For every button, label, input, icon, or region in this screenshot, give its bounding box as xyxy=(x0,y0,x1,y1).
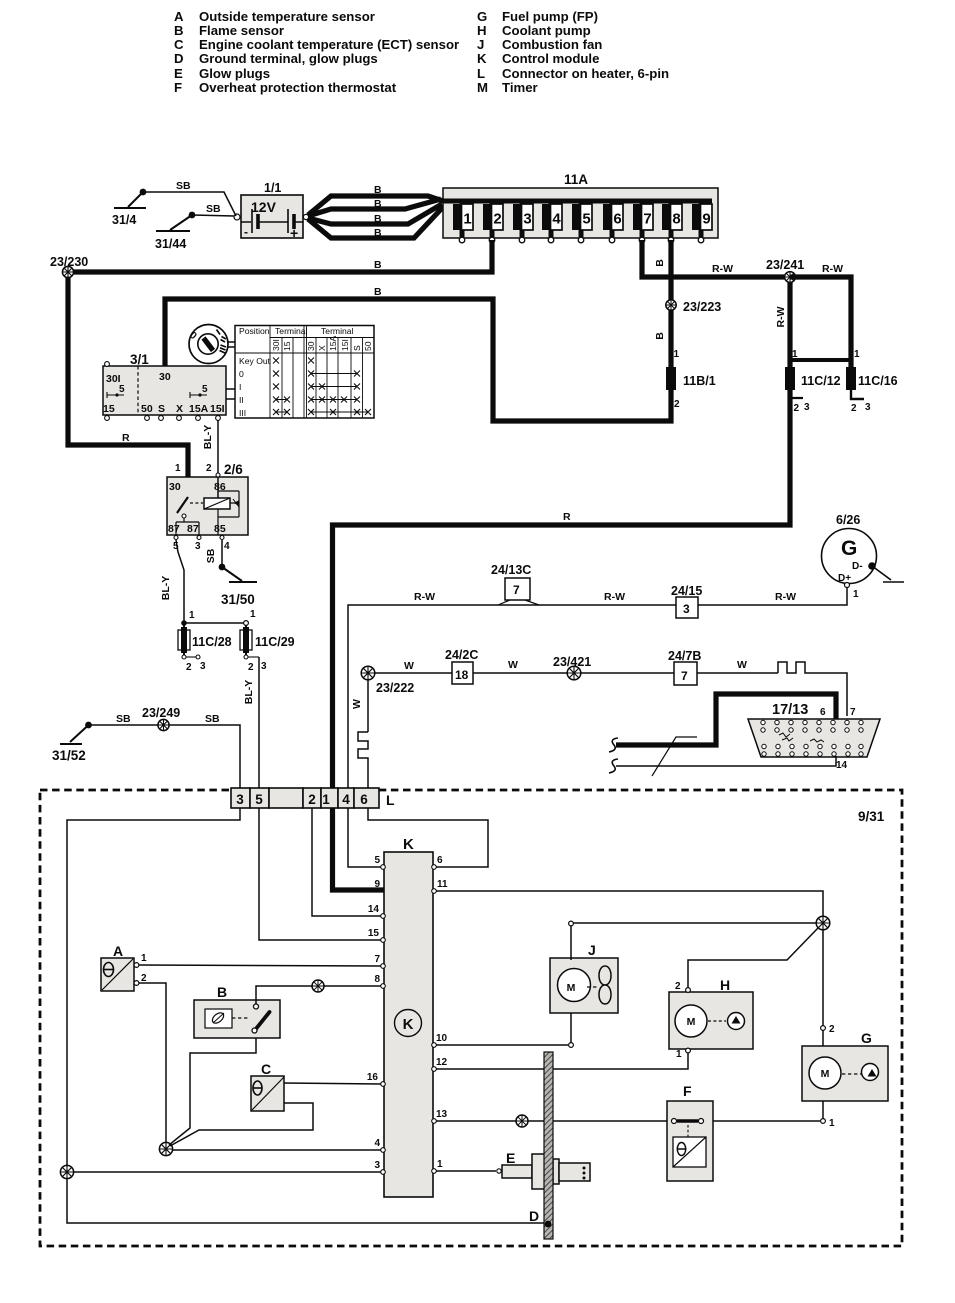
wire from C bottom to sensor ground junction xyxy=(170,1103,313,1146)
svg-text:3: 3 xyxy=(865,402,871,413)
svg-text:23/249: 23/249 xyxy=(142,706,180,720)
pulse symbol on W wire xyxy=(778,662,814,673)
svg-text:1: 1 xyxy=(463,211,471,228)
svg-text:2: 2 xyxy=(675,981,681,992)
ground 31/52 xyxy=(52,722,92,763)
ground at alternator D- xyxy=(868,562,904,582)
wire from L:3 down-left to bottom rail xyxy=(67,808,544,1223)
fuse 11A:6 xyxy=(603,201,623,243)
node junction dot 11C/28 pin1 xyxy=(181,620,187,626)
fuse 11A:3 xyxy=(513,201,533,243)
ground 31/44 xyxy=(155,212,195,251)
svg-text:0: 0 xyxy=(239,369,244,379)
junction 23/223 xyxy=(666,300,721,314)
svg-text:J: J xyxy=(588,942,596,958)
control module K xyxy=(384,836,433,1197)
svg-text:1: 1 xyxy=(792,349,798,360)
svg-text:3/1: 3/1 xyxy=(130,352,149,367)
svg-text:11B/1: 11B/1 xyxy=(683,374,716,388)
svg-text:3: 3 xyxy=(374,1160,380,1171)
svg-text:G: G xyxy=(477,9,487,24)
svg-text:R-W: R-W xyxy=(822,263,843,275)
svg-text:SB: SB xyxy=(176,180,191,192)
svg-text:23/421: 23/421 xyxy=(553,655,591,669)
svg-text:Ground terminal, glow plugs: Ground terminal, glow plugs xyxy=(199,51,378,66)
fuse 11C/28 xyxy=(178,623,232,673)
svg-text:15I: 15I xyxy=(210,403,225,415)
svg-text:5: 5 xyxy=(582,211,590,228)
svg-text:87: 87 xyxy=(187,523,199,535)
svg-text:B: B xyxy=(374,259,382,271)
svg-text:C: C xyxy=(261,1061,271,1077)
svg-text:SB: SB xyxy=(206,203,221,215)
svg-text:1: 1 xyxy=(853,589,859,600)
wire from L:4 to K pin 5 xyxy=(348,808,381,867)
thick wire from L:1 to K pin 9 xyxy=(333,808,385,890)
svg-text:Control module: Control module xyxy=(502,51,599,66)
svg-text:Outside temperature sensor: Outside temperature sensor xyxy=(199,9,375,24)
wire from A pin 1 to K pin 7 xyxy=(139,965,381,966)
svg-text:15: 15 xyxy=(282,341,292,351)
sensor A outside temperature xyxy=(101,943,147,991)
wire from J top to right junction xyxy=(570,926,572,960)
table marks row I xyxy=(273,384,279,390)
sensor ground junction xyxy=(159,1142,172,1155)
wire from H pin 2 to right junction xyxy=(686,988,691,993)
svg-text:D: D xyxy=(529,1208,539,1224)
svg-text:1: 1 xyxy=(437,1159,443,1170)
svg-text:K: K xyxy=(477,51,487,66)
wire from C to K pin 16 xyxy=(284,1083,381,1084)
dashed enclosure 9/31 xyxy=(40,790,902,1246)
fuse 11C/12 xyxy=(785,360,841,414)
junction 23/241 xyxy=(766,258,804,283)
svg-text:R: R xyxy=(563,511,571,523)
table marks row III xyxy=(273,409,290,415)
svg-text:B: B xyxy=(174,23,184,38)
svg-text:BL-Y: BL-Y xyxy=(202,425,214,450)
svg-text:16: 16 xyxy=(367,1072,379,1083)
wire from right junction down to G pin 2 xyxy=(822,930,824,1026)
svg-text:1: 1 xyxy=(676,1049,682,1060)
svg-text:1: 1 xyxy=(189,610,195,621)
overheat thermostat F xyxy=(667,1083,713,1181)
wire from B bottom to sensor ground junction xyxy=(169,1038,256,1145)
svg-text:5: 5 xyxy=(119,384,125,395)
wire R-W from 23/241 down to 11C/12 xyxy=(787,282,792,360)
junction 23/421 xyxy=(553,655,591,680)
wire from K pin 8 to B xyxy=(256,986,381,1004)
junction on K8 wire xyxy=(312,980,324,992)
break symbols xyxy=(609,738,618,752)
wire BL-Y from 3/1 terminal 15I to relay 2/6 pin 2 xyxy=(217,420,219,473)
wire from fuse 11A:8 down to fusible link 11B/1 xyxy=(668,240,673,368)
svg-text:1: 1 xyxy=(141,953,147,964)
svg-text:A: A xyxy=(113,943,123,959)
svg-text:3: 3 xyxy=(200,661,206,672)
svg-text:85: 85 xyxy=(214,523,226,535)
svg-text:17/13: 17/13 xyxy=(772,702,808,718)
table marks row II xyxy=(273,397,290,403)
svg-text:2: 2 xyxy=(308,792,316,807)
svg-text:3: 3 xyxy=(195,541,201,552)
svg-text:2: 2 xyxy=(794,403,800,414)
svg-text:1: 1 xyxy=(854,349,860,360)
svg-text:M: M xyxy=(821,1068,830,1080)
svg-text:11A: 11A xyxy=(564,172,588,187)
svg-text:W: W xyxy=(404,660,414,672)
wire from A pin 2 to sensor ground junction xyxy=(139,983,166,1143)
svg-text:Flame sensor: Flame sensor xyxy=(199,23,284,38)
svg-text:Overheat protection thermostat: Overheat protection thermostat xyxy=(199,80,397,95)
wire R from 11C/12 down-left to connector L:1 xyxy=(333,392,791,788)
junction 23/249 xyxy=(142,706,180,731)
ground 31/50 xyxy=(219,564,257,607)
fuel pump G xyxy=(802,1030,888,1101)
svg-text:30: 30 xyxy=(159,371,171,383)
connector 11A fuse box xyxy=(443,172,718,238)
svg-text:14: 14 xyxy=(836,760,848,771)
wire B from 23/230 to fuse 11A:2 xyxy=(73,240,492,272)
fusible link 11B/1 xyxy=(666,349,716,410)
svg-text:6: 6 xyxy=(820,707,826,718)
connector 24/15 xyxy=(671,584,702,618)
svg-text:Terminal: Terminal xyxy=(321,326,354,336)
combustion fan J xyxy=(550,942,618,1013)
svg-text:B: B xyxy=(374,227,382,239)
ground terminal D bar xyxy=(529,1052,553,1239)
svg-text:M: M xyxy=(567,982,576,994)
relay 2/6 xyxy=(167,462,248,552)
thick wire into 17/13 pin 6 xyxy=(616,694,836,745)
3/1 fuse 5 left xyxy=(107,392,124,398)
K pin terminals xyxy=(381,865,437,1175)
svg-text:B: B xyxy=(654,259,666,267)
svg-text:5: 5 xyxy=(202,384,208,395)
svg-text:31/52: 31/52 xyxy=(52,748,86,763)
ignition switch 3/1 xyxy=(103,352,235,420)
svg-text:E: E xyxy=(506,1150,515,1166)
svg-text:11: 11 xyxy=(437,879,448,890)
svg-text:X: X xyxy=(176,403,183,415)
svg-text:S: S xyxy=(352,345,362,351)
wire from L:6 to K pin 6 xyxy=(368,808,488,867)
coolant pump H xyxy=(669,977,753,1049)
battery 1/1 xyxy=(234,181,309,241)
svg-text:8: 8 xyxy=(672,211,680,228)
svg-text:II: II xyxy=(239,395,244,405)
svg-text:4: 4 xyxy=(374,1138,380,1149)
svg-text:1: 1 xyxy=(175,463,181,474)
svg-text:B: B xyxy=(374,184,382,196)
svg-text:3: 3 xyxy=(804,402,810,413)
wire SB from 31/52 to connector L:3 xyxy=(89,725,241,788)
fuse 11A:2 xyxy=(483,201,503,243)
legend column 2 xyxy=(477,9,669,95)
svg-text:A: A xyxy=(174,9,184,24)
table marks row 0 xyxy=(273,371,279,377)
wire SB from 31/44 to battery xyxy=(192,215,234,216)
svg-text:6: 6 xyxy=(437,855,443,866)
wire B battery fan line2 xyxy=(308,199,441,216)
fuse 11C/16 xyxy=(846,360,898,414)
svg-text:31/50: 31/50 xyxy=(221,592,255,607)
wire SB from 31/4 to battery xyxy=(143,192,236,216)
svg-text:D: D xyxy=(174,51,184,66)
svg-text:24/2C: 24/2C xyxy=(445,648,478,662)
svg-text:12V: 12V xyxy=(251,199,277,215)
svg-text:30: 30 xyxy=(169,481,181,493)
K right pin labels xyxy=(436,855,448,1170)
svg-text:D+: D+ xyxy=(838,573,851,584)
wire from K pin 13 through F to G pin 1 xyxy=(436,1120,820,1122)
svg-text:G: G xyxy=(841,537,857,560)
svg-text:15: 15 xyxy=(103,403,115,415)
svg-text:14: 14 xyxy=(368,904,380,915)
svg-text:23/230: 23/230 xyxy=(50,255,88,269)
3/1 fuse 5 right xyxy=(190,392,207,398)
svg-text:BL-Y: BL-Y xyxy=(243,680,255,705)
svg-text:BL-Y: BL-Y xyxy=(160,576,172,601)
connector 24/13C xyxy=(491,563,539,605)
svg-text:R-W: R-W xyxy=(414,591,435,603)
svg-text:24/7B: 24/7B xyxy=(668,649,701,663)
svg-text:7: 7 xyxy=(513,583,520,597)
wire W from 23/222 to 17/13 pin 7 xyxy=(375,673,847,716)
svg-text:W: W xyxy=(351,699,363,709)
wire from J bottom to K pin 10 xyxy=(570,1013,572,1043)
svg-text:50: 50 xyxy=(363,341,373,351)
svg-text:12: 12 xyxy=(436,1057,448,1068)
svg-text:R-W: R-W xyxy=(604,591,625,603)
svg-text:2: 2 xyxy=(493,211,501,228)
svg-text:15A: 15A xyxy=(189,403,209,415)
thin wire from 17/13 pin 14 xyxy=(616,756,836,766)
svg-text:III: III xyxy=(239,408,246,418)
svg-text:11C/16: 11C/16 xyxy=(858,374,898,388)
svg-text:K: K xyxy=(403,836,414,853)
junction 23/222 xyxy=(361,666,414,695)
svg-text:J: J xyxy=(477,37,484,52)
relay switch blade xyxy=(177,497,188,513)
svg-text:23/222: 23/222 xyxy=(376,681,414,695)
svg-text:D-: D- xyxy=(852,561,863,572)
svg-text:R: R xyxy=(122,432,130,444)
svg-text:Terminal: Terminal xyxy=(275,326,308,336)
svg-text:50: 50 xyxy=(141,403,153,415)
junction right xyxy=(816,916,830,930)
cable marker slash xyxy=(652,737,697,776)
glow plugs E xyxy=(436,1150,590,1189)
svg-text:7: 7 xyxy=(681,669,688,683)
wire B from ignition 3/1 terminal 30 to 11B/1 pin2 xyxy=(165,299,671,421)
wire from K pin 11 to right junction xyxy=(436,891,823,916)
svg-text:K: K xyxy=(403,1016,414,1033)
svg-text:Key Out: Key Out xyxy=(239,356,271,366)
svg-text:7: 7 xyxy=(374,954,380,965)
svg-text:23/241: 23/241 xyxy=(766,258,804,272)
svg-text:7: 7 xyxy=(643,211,651,228)
svg-text:X: X xyxy=(317,345,327,351)
svg-text:H: H xyxy=(477,23,487,38)
svg-text:4: 4 xyxy=(342,792,350,807)
svg-text:9/31: 9/31 xyxy=(858,809,885,824)
svg-text:2: 2 xyxy=(206,463,212,474)
svg-text:I: I xyxy=(239,382,241,392)
svg-text:3: 3 xyxy=(683,602,690,616)
svg-text:5: 5 xyxy=(374,855,380,866)
svg-text:W: W xyxy=(737,659,747,671)
legend column 1 xyxy=(174,9,459,95)
svg-text:S: S xyxy=(158,403,165,415)
svg-text:31/4: 31/4 xyxy=(112,213,136,227)
wire W from 23/222 down to connector L:6 xyxy=(367,680,369,788)
wire between 11C/28 and 11C/29 pin1 xyxy=(184,622,244,624)
relay coil xyxy=(216,473,220,477)
svg-text:B: B xyxy=(217,984,227,1000)
wire B battery fan line3 xyxy=(308,204,442,224)
svg-text:10: 10 xyxy=(436,1033,448,1044)
3/1 terminals xyxy=(105,362,110,367)
svg-text:23/223: 23/223 xyxy=(683,300,721,314)
svg-text:R-W: R-W xyxy=(775,306,787,327)
connector 24/2C xyxy=(445,648,478,684)
svg-text:30: 30 xyxy=(306,341,316,351)
svg-text:SB: SB xyxy=(205,548,217,563)
svg-text:3: 3 xyxy=(523,211,531,228)
svg-text:15A: 15A xyxy=(328,335,338,351)
wire from junction to K pin 3 xyxy=(73,1171,381,1173)
connector 17/13 xyxy=(748,702,880,771)
fuse 11A:8 xyxy=(662,201,682,243)
fuse 11A:7 xyxy=(633,201,653,243)
alternator G 6/26 xyxy=(822,513,877,600)
svg-text:30I: 30I xyxy=(271,339,281,351)
svg-text:9: 9 xyxy=(702,211,710,228)
svg-text:Position: Position xyxy=(239,326,270,336)
svg-text:2: 2 xyxy=(829,1024,835,1035)
svg-text:2: 2 xyxy=(851,403,857,414)
svg-text:3: 3 xyxy=(261,661,267,672)
junction 23/230 xyxy=(50,255,88,278)
fuse 11A:4 xyxy=(542,201,562,243)
svg-text:SB: SB xyxy=(116,713,131,725)
wire SB from relay pin 4 to ground 31/50 xyxy=(221,540,223,566)
wire from G bottom to pin 1 xyxy=(822,1101,824,1119)
svg-text:B: B xyxy=(374,213,382,225)
svg-text:F: F xyxy=(683,1083,692,1099)
svg-text:Engine coolant temperature (EC: Engine coolant temperature (ECT) sensor xyxy=(199,37,459,52)
wire from sensor ground junction to K pin 4 xyxy=(173,1149,381,1151)
wire from L:5 to K pin 15 xyxy=(259,808,381,940)
wire from 23/230 down to relay 2/6 terminal 30 xyxy=(68,277,188,497)
fuse 11C/29 xyxy=(240,625,295,673)
svg-text:R-W: R-W xyxy=(712,263,733,275)
ignition key symbol xyxy=(187,325,235,364)
svg-text:6: 6 xyxy=(613,211,621,228)
svg-text:1: 1 xyxy=(322,792,330,807)
table marks row KeyOut xyxy=(273,358,314,364)
svg-text:6/26: 6/26 xyxy=(836,513,860,527)
svg-text:5: 5 xyxy=(255,792,263,807)
svg-text:E: E xyxy=(174,66,183,81)
svg-text:W: W xyxy=(508,659,518,671)
svg-text:24/15: 24/15 xyxy=(671,584,702,598)
svg-text:6: 6 xyxy=(360,792,368,807)
svg-text:B: B xyxy=(374,198,382,210)
svg-text:Combustion fan: Combustion fan xyxy=(502,37,602,52)
svg-text:M: M xyxy=(477,80,488,95)
K left pin labels xyxy=(367,855,381,1171)
svg-text:2: 2 xyxy=(186,662,192,673)
svg-text:B: B xyxy=(654,332,666,340)
svg-text:R-W: R-W xyxy=(775,591,796,603)
svg-text:18: 18 xyxy=(455,668,469,682)
sensor C ECT xyxy=(251,1061,284,1111)
svg-text:1/1: 1/1 xyxy=(264,181,281,195)
ground 31/4 xyxy=(112,189,146,227)
svg-text:3: 3 xyxy=(236,792,244,807)
svg-text:2: 2 xyxy=(248,662,254,673)
svg-text:2: 2 xyxy=(674,399,680,410)
wire from L:2 to K pin 14 xyxy=(312,808,381,916)
svg-text:8: 8 xyxy=(374,974,380,985)
fuse 11A:9 xyxy=(692,201,712,243)
wire BL-Y from relay pin 5 to 11C/28 xyxy=(176,540,184,622)
wire B battery fan line4 xyxy=(308,207,443,238)
svg-text:C: C xyxy=(174,37,184,52)
svg-text:M: M xyxy=(687,1016,696,1028)
svg-text:-: - xyxy=(244,225,248,239)
svg-text:B: B xyxy=(374,286,382,298)
svg-text:11C/12: 11C/12 xyxy=(801,374,841,388)
svg-text:4: 4 xyxy=(552,211,561,228)
svg-text:13: 13 xyxy=(436,1109,448,1120)
fuse 11A:1 xyxy=(453,201,473,243)
svg-text:F: F xyxy=(174,80,182,95)
svg-text:15: 15 xyxy=(368,928,380,939)
ignition position table xyxy=(235,326,374,419)
svg-text:Timer: Timer xyxy=(502,80,538,95)
svg-text:Connector on heater, 6-pin: Connector on heater, 6-pin xyxy=(502,66,669,81)
svg-text:2/6: 2/6 xyxy=(224,462,243,477)
flame sensor B xyxy=(194,984,280,1038)
svg-text:1: 1 xyxy=(829,1118,835,1129)
svg-text:Coolant pump: Coolant pump xyxy=(502,23,591,38)
svg-text:4: 4 xyxy=(224,541,230,552)
junction on K13 wire xyxy=(516,1115,528,1127)
fuse 11A:5 xyxy=(572,201,592,243)
svg-text:87: 87 xyxy=(168,523,180,535)
svg-text:7: 7 xyxy=(850,707,856,718)
svg-text:H: H xyxy=(720,977,730,993)
connector 24/7B xyxy=(668,649,701,685)
svg-text:11C/28: 11C/28 xyxy=(192,635,232,649)
svg-text:+: + xyxy=(290,225,298,241)
svg-text:11C/29: 11C/29 xyxy=(255,635,295,649)
svg-text:L: L xyxy=(386,792,395,808)
wire tie between 11C/12 and 11C/16 pin1 xyxy=(790,358,851,362)
pulse symbol on vertical W wire xyxy=(358,732,368,765)
wire B battery fan line1 xyxy=(308,196,443,215)
svg-text:Glow plugs: Glow plugs xyxy=(199,66,270,81)
wire BL-Y from 11C/29 pin3 down to connector L:5 xyxy=(258,657,260,788)
svg-text:24/13C: 24/13C xyxy=(491,563,531,577)
svg-text:G: G xyxy=(861,1030,872,1046)
svg-text:Fuel pump (FP): Fuel pump (FP) xyxy=(502,9,598,24)
wire from H pin 1 to K pin 12 xyxy=(686,1048,691,1053)
svg-text:1: 1 xyxy=(674,349,680,360)
